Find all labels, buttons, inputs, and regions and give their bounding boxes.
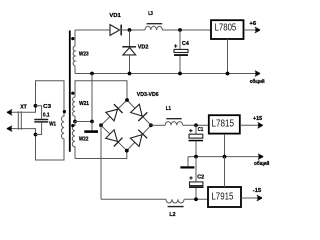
- node VD1/VD2 junction: [128, 28, 132, 32]
- svg-text:VD1: VD1: [109, 13, 120, 19]
- node VD2 bottom junction: [128, 72, 132, 76]
- svg-text:C1: C1: [198, 127, 204, 133]
- node bridge top corner: [125, 98, 129, 102]
- svg-text:+15: +15: [253, 116, 262, 122]
- inductor L2: [166, 199, 184, 218]
- node C2 bottom junction: [194, 197, 198, 201]
- winding W2.3: [73, 30, 89, 74]
- svg-text:W23: W23: [79, 51, 89, 57]
- node center tap junction: [73, 120, 77, 124]
- svg-text:L7805: L7805: [215, 23, 237, 34]
- wire common rail mid section: [188, 154, 270, 167]
- node C1 top junction: [194, 123, 198, 127]
- node W1 phase dot: [63, 110, 66, 113]
- wire link from +6 common to center tap: [91, 74, 93, 122]
- svg-text:VD3-VD6: VD3-VD6: [137, 92, 159, 98]
- winding W2.2: [72, 122, 88, 159]
- net -15 output arrow: [241, 188, 262, 201]
- node W2.2 phase dot: [71, 124, 74, 127]
- wire L7815 gnd lead: [224, 134, 226, 157]
- svg-text:L7915: L7915: [211, 192, 233, 203]
- svg-text:-15: -15: [253, 188, 261, 194]
- svg-text:L2: L2: [169, 212, 175, 218]
- svg-text:W21: W21: [79, 101, 89, 107]
- node C1 bottom junction: [194, 155, 198, 159]
- svg-text:C3: C3: [43, 104, 51, 110]
- svg-text:L3: L3: [148, 11, 153, 17]
- regulator U1 L7805: [211, 20, 244, 39]
- capacitor C4: [174, 30, 190, 74]
- diode VD4 bridge top-right: [131, 104, 148, 121]
- diode VD5 bridge bottom-left: [106, 130, 123, 147]
- inductor L3: [145, 11, 162, 30]
- winding W1 primary: [36, 81, 65, 160]
- wire L7805 ground lead: [227, 39, 229, 74]
- capacitor C3: [34, 104, 51, 134]
- regulator U2 L7815: [209, 115, 240, 133]
- svg-text:W22: W22: [79, 136, 89, 142]
- svg-text:L1: L1: [166, 106, 171, 112]
- node C4 top junction: [178, 28, 182, 32]
- svg-text:L7815: L7815: [212, 119, 235, 130]
- node bridge bottom corner: [125, 149, 129, 153]
- svg-text:0.1: 0.1: [43, 113, 50, 119]
- wire L2 to L7915: [184, 198, 208, 200]
- capacitor C1: [189, 125, 204, 156]
- node C4 bottom junction: [178, 72, 182, 76]
- node C3 bottom junction: [34, 133, 38, 137]
- svg-text:W1: W1: [49, 122, 56, 128]
- label bridge VD3-VD6: [137, 92, 159, 98]
- svg-text:общий: общий: [250, 78, 265, 85]
- wire VD1 to L3: [120, 29, 145, 31]
- node W2.1 phase dot: [71, 92, 74, 95]
- wire L7915 gnd lead: [224, 157, 226, 187]
- net +15 output arrow: [240, 116, 263, 128]
- node chassis link junction: [90, 120, 94, 124]
- ground chassis bar at common rail: [180, 157, 194, 169]
- wire bridge diamond edges: [101, 100, 151, 151]
- wire L1 to L7815: [183, 124, 209, 126]
- node bridge right corner: [149, 123, 153, 127]
- node W2.3 phase dot: [71, 37, 74, 40]
- node bridge left corner: [99, 123, 103, 127]
- node C3 top junction: [34, 104, 38, 108]
- transformer core: [69, 31, 71, 152]
- wire L3 to L7805: [162, 29, 211, 31]
- svg-text:C2: C2: [197, 174, 204, 180]
- diode VD1: [109, 13, 121, 35]
- wire top rail from W2.3 to VD1: [75, 29, 110, 31]
- wire bridge right to L1: [151, 124, 165, 126]
- regulator U3 L7915: [208, 187, 241, 207]
- svg-text:VD2: VD2: [138, 44, 149, 50]
- wire bridge left corner down to negative rail: [100, 125, 102, 199]
- node regulators gnd junction: [223, 155, 227, 159]
- winding W2.1: [73, 97, 89, 122]
- inductor L1: [165, 106, 182, 126]
- diode VD3 bridge top-left: [106, 104, 123, 121]
- capacitor C2: [189, 157, 204, 200]
- svg-text:C4: C4: [182, 41, 190, 47]
- svg-text:общий: общий: [254, 160, 270, 167]
- node L7805 gnd junction: [226, 72, 230, 76]
- net +6 output arrow: [244, 21, 261, 33]
- wire center tap to chassis: [75, 121, 92, 123]
- diode VD2: [122, 30, 148, 74]
- wire negative rail to L2: [101, 198, 166, 200]
- node rail-link junction: [90, 72, 94, 76]
- svg-text:+6: +6: [249, 21, 256, 27]
- connector XT: [7, 105, 36, 135]
- wire common rail of +6 section: [75, 71, 265, 86]
- svg-text:XT: XT: [20, 105, 27, 111]
- wire W2.2 bottom to bridge bottom: [75, 151, 127, 159]
- diode VD6 bridge bottom-right: [130, 130, 147, 147]
- ground chassis bar at center tap: [84, 122, 98, 133]
- wire W2.1 top to bridge top: [75, 81, 127, 100]
